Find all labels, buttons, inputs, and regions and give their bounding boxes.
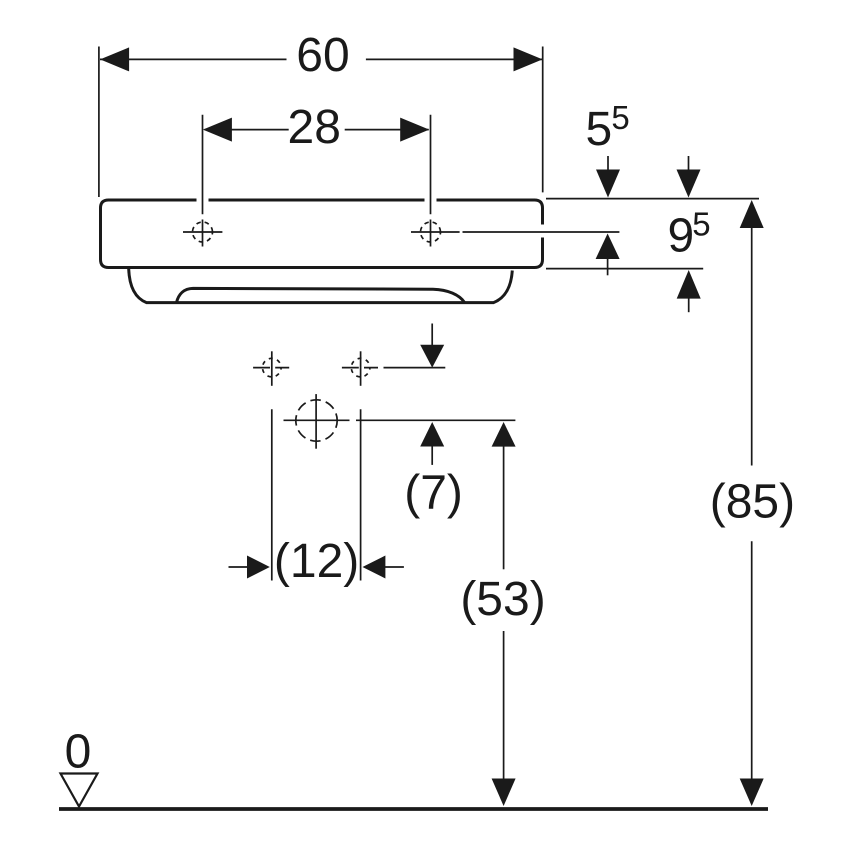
svg-text:5: 5 — [692, 205, 710, 242]
svg-text:9: 9 — [668, 210, 695, 263]
dimension 5.5 down arrow 1 — [596, 170, 620, 198]
dimension (12) left arrow — [247, 556, 270, 579]
dimension (85) down arrow — [740, 779, 764, 807]
right tap hole dashed circle — [421, 222, 441, 242]
dimension (12) right arrow tail — [385, 566, 404, 568]
dimension (12) left extension line — [271, 409, 273, 580]
line at tap hole level to 9.5 arrow — [463, 231, 620, 233]
dimension (85) line upper — [751, 227, 753, 466]
svg-text:(53): (53) — [460, 573, 545, 626]
dimension 60 right arrow — [514, 47, 543, 71]
washbasin apron — [129, 269, 513, 303]
dimension 9.5 bottom up arrow — [677, 270, 701, 299]
dimension (53) down arrow — [492, 779, 516, 807]
svg-text:0: 0 — [65, 726, 92, 779]
dimension (12) right extension line — [360, 409, 362, 580]
line at big hole level — [356, 419, 515, 421]
ground line — [59, 807, 768, 811]
big hole crosshair horizontal — [284, 419, 350, 421]
svg-text:(12): (12) — [274, 535, 359, 588]
svg-text:28: 28 — [288, 101, 341, 154]
dimension (7) up arrow — [420, 422, 444, 447]
dimension 9.5 bottom up arrow stub — [688, 298, 690, 312]
big hole dashed circle — [296, 400, 337, 441]
dimension 60 left arrow — [100, 47, 129, 71]
line at small holes level — [384, 367, 446, 369]
dimension 28 right arrow — [400, 118, 429, 142]
washbasin body outline — [101, 200, 543, 268]
svg-text:5: 5 — [611, 99, 629, 136]
small hole cross left — [271, 351, 273, 386]
svg-text:(7): (7) — [404, 467, 463, 520]
dimension 9.5 down arrow 2 stub — [688, 156, 690, 170]
small hole cross right — [360, 351, 362, 386]
right tap hole centerline vertical — [430, 115, 432, 247]
washbasin front recess — [177, 288, 465, 302]
dimension 5.5 down arrow 1 stub — [607, 156, 609, 170]
dimension (53) line upper — [503, 446, 505, 569]
svg-text:60: 60 — [296, 29, 349, 82]
down arrow to small holes line — [420, 345, 444, 368]
dimension 60 line — [100, 58, 543, 60]
reference line at basin top level — [546, 198, 759, 200]
down arrow stub to small holes line — [431, 324, 433, 346]
left tap hole dashed circle — [193, 222, 213, 242]
dimension 28 line — [205, 129, 429, 131]
reference line at basin bottom level — [546, 268, 703, 270]
dimension 5.5 up arrow stub — [607, 259, 609, 276]
datum triangle — [61, 774, 98, 807]
dimension (85) line lower — [751, 541, 753, 779]
dimension 5.5 up arrow — [596, 234, 620, 260]
dimension 28 left arrow — [203, 118, 232, 142]
dimension 60 left extension line — [98, 47, 100, 198]
dimension (53) up arrow — [492, 422, 516, 447]
big hole crosshair vertical — [315, 394, 317, 449]
dimension (85) up arrow — [740, 200, 764, 228]
dimension (12) left arrow tail — [229, 566, 249, 568]
dimension (12) right arrow — [363, 556, 386, 579]
dimension (7) stub — [431, 446, 433, 465]
dimension 60 right extension line — [542, 47, 544, 193]
left tap hole centerline vertical — [202, 115, 204, 247]
left tap hole crosshair horizontal — [183, 231, 222, 233]
svg-text:(85): (85) — [710, 476, 795, 529]
dimension 9.5 down arrow 2 — [677, 170, 701, 198]
dimension (53) line lower — [503, 631, 505, 779]
svg-text:5: 5 — [586, 103, 613, 156]
right tap hole crosshair horizontal — [411, 231, 460, 233]
